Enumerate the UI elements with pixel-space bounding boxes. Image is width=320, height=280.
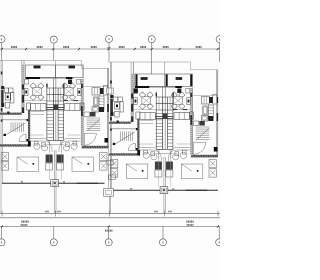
gate post box <box>51 180 59 187</box>
Q2 garden bed <box>72 157 94 171</box>
Q2 shrub circle 1 <box>71 143 77 149</box>
kitchen top line <box>192 95 217 97</box>
party wall upper stub <box>164 62 166 74</box>
building top edge line right <box>81 67 108 69</box>
Q1 room label <box>34 66 41 69</box>
Q2 path square 2 <box>175 152 179 156</box>
Q1 path to gate <box>158 159 160 187</box>
Q2 path square 2 <box>66 143 70 147</box>
left edge wall outer <box>0 61 2 214</box>
grid stem 3 (bottom) <box>108 227 110 239</box>
Q2 divider dark dash 1 <box>64 100 69 101</box>
crossing box between buildings <box>107 88 113 94</box>
Q1 path square 1 <box>144 150 148 154</box>
grid bubble 3 (bottom) <box>105 239 112 246</box>
grid bubble 1 (top) <box>0 36 5 43</box>
Q2 shrub circle 2 <box>173 154 179 160</box>
Q2 sofa group <box>174 113 189 120</box>
building top edge line right <box>191 69 218 71</box>
grid stem 2 (top) <box>53 43 55 60</box>
Q2 room divider line <box>64 100 81 102</box>
Q2 dining table and chairs <box>62 83 68 89</box>
black blob below room-left <box>134 89 138 94</box>
Q1 terrace furniture <box>111 95 114 98</box>
stair mid-landing dark band <box>156 116 174 118</box>
Q2 room divider line <box>173 109 190 111</box>
terrace bottom wall hatched <box>0 113 22 115</box>
Q1 path square 1 <box>34 141 38 145</box>
Q2 top bedroom <box>165 74 193 87</box>
grid stem 2 (bottom) <box>53 227 55 239</box>
Q1 shrub circle 2 <box>151 154 157 160</box>
Q1 stair dark dot <box>113 143 116 145</box>
black dot left of stair core <box>46 84 47 88</box>
party fence lower a <box>163 194 165 214</box>
Q2 dark block <box>105 138 109 143</box>
Q2 path to gate <box>61 152 63 180</box>
Q2 path top line <box>177 143 190 145</box>
street label L1 <box>44 211 47 213</box>
grid bubble 4 (top) <box>148 36 155 43</box>
left wall dark tick 2 <box>110 117 112 121</box>
Q2 bottom wall hatched <box>191 155 218 158</box>
kitchen left wall hatch <box>191 88 193 154</box>
Q2 kitchen sink dark <box>100 88 104 94</box>
bottom dim text row2 L <box>21 224 22 226</box>
Q1 room left black bar <box>136 74 138 86</box>
Q2 entry steps <box>57 155 64 163</box>
Q2 room left black bar <box>166 74 168 86</box>
Q2 shrub circle 1 <box>180 152 186 158</box>
right wall dark seg2 <box>217 113 219 121</box>
Q1 garden path curve <box>31 139 50 153</box>
Q1 entry steps <box>155 162 162 170</box>
left edge wall inner <box>1 61 3 184</box>
Q1 room bottom wall black <box>135 86 150 88</box>
Q1 room divider line <box>24 100 47 102</box>
Q2 dark landing box <box>90 112 96 117</box>
Q1 bottom wall post <box>28 141 31 147</box>
street tick <box>54 211 56 217</box>
Q2 stair diagonal <box>196 128 209 140</box>
Q2 kitchen sink dark <box>209 97 213 103</box>
Q2 stair diagonal <box>87 119 100 131</box>
Q1 stair diagonal <box>116 132 135 144</box>
grid bubble 3 (top) <box>106 36 113 43</box>
Q2 kitchen sink oval <box>201 116 208 122</box>
right edge wall a <box>216 70 218 157</box>
Q2 entry stair room <box>84 112 90 117</box>
left edge wall outer <box>109 62 111 213</box>
kitchen wall dark seg <box>190 93 192 97</box>
grid stem 1 (bottom) <box>1 227 3 239</box>
Q1 terrace furniture <box>1 86 4 89</box>
terrace wall hatch <box>22 65 24 113</box>
grid bubble 1 (bottom) <box>0 239 5 246</box>
top dimension texts <box>11 46 12 48</box>
Q1 room label <box>141 77 148 80</box>
kitchen left wall a <box>190 88 192 155</box>
street line 2 <box>0 217 220 219</box>
Q2 divider dark dash 2 <box>183 109 188 110</box>
terrace bottom wall hatched <box>109 122 131 124</box>
Q2 black fixture <box>177 89 181 94</box>
terrace wall hatch <box>131 74 133 122</box>
grid bubble 5 (top) <box>216 36 223 43</box>
Q1 hatched wall vertical <box>137 119 139 150</box>
grid stem 5 (bottom) <box>218 227 220 239</box>
stair core dark cell <box>54 104 58 110</box>
Q2 garden bed <box>181 164 203 178</box>
label under bubble 3 <box>106 47 109 48</box>
terrace wall dark segment 2 <box>22 95 24 103</box>
Q1 room divider line <box>133 109 156 111</box>
Q2 shrub circle 2 <box>63 145 69 151</box>
party fence upper a <box>54 150 56 180</box>
Q1 shrub circle 1 <box>143 152 149 158</box>
kitchen wall dark seg 2 <box>190 115 192 125</box>
left wall dark tick 1 <box>110 81 112 84</box>
yard garden elements <box>1 153 8 161</box>
Q1 small box <box>134 89 138 94</box>
grid stem 3 (top) <box>108 43 110 63</box>
Q1 garden path curve <box>140 148 159 162</box>
terrace wall dark segment 3 <box>131 117 133 123</box>
grid stem 4 (bottom) <box>162 227 164 239</box>
Q1 top bedroom <box>135 74 165 87</box>
right edge wall a <box>107 68 109 148</box>
Q1 path top line <box>31 134 44 136</box>
bottom dimension texts row1 <box>21 221 22 223</box>
building top edge line left <box>0 60 81 62</box>
Q1 sideboard <box>134 98 138 105</box>
Q2 room right black bar <box>190 74 192 86</box>
party fence upper a <box>163 157 165 187</box>
Q2 room label <box>69 66 76 69</box>
Q1 path top line <box>140 143 153 145</box>
grid bubble 5 (bottom) <box>216 239 223 246</box>
terrace wall dark segment 1 <box>22 85 24 90</box>
crossing box 2 between yards <box>107 160 113 165</box>
Q1 entry stair room <box>2 119 26 121</box>
Q2 fridge <box>203 106 208 115</box>
stair bottom row <box>156 148 173 150</box>
Q1 stair diagonal <box>6 123 25 135</box>
Q2 small box <box>186 89 190 94</box>
terrace wall dark segment 2 <box>131 104 133 112</box>
stair rungs <box>156 113 173 146</box>
Q1 stair dark dot <box>4 134 7 136</box>
Q1 room bottom wall thin <box>149 86 165 88</box>
gate post box <box>160 187 168 194</box>
street line 1 <box>0 212 220 214</box>
Q1 shrub circle 1 <box>34 143 40 149</box>
top dimension ticks <box>1 48 219 50</box>
left edge wall inner <box>111 62 113 192</box>
small mid box <box>109 175 116 180</box>
stair core dark cell <box>163 113 167 119</box>
left wall dark tick 3 <box>1 120 3 122</box>
Q2 dark landing box <box>199 121 205 126</box>
right edge wall b <box>108 68 110 148</box>
left wall dark tick 1 <box>1 72 3 75</box>
Q2 room label <box>176 77 183 80</box>
top edge jog vertical <box>190 62 192 70</box>
yard garden elements <box>111 160 118 168</box>
fence dark dashes <box>77 183 98 184</box>
party fence lower a <box>54 187 56 214</box>
grid stem 5 (top) <box>219 43 221 62</box>
Q2 kitchen counter 2 <box>104 86 108 96</box>
Q2 kitchen counter <box>92 88 100 96</box>
Q1 room bottom wall black <box>26 77 41 79</box>
Q1 top bedroom <box>26 65 56 78</box>
gate label <box>62 181 65 182</box>
grid bubble 2 (bottom) <box>50 239 57 246</box>
kitchen left wall hatch <box>81 79 83 145</box>
Q2 room bottom wall black <box>66 77 73 79</box>
Q1 shrub circle 2 <box>42 145 48 151</box>
Q2 kitchen counter 2 <box>213 95 217 105</box>
Q2 kitchen counter <box>201 97 209 105</box>
Q1 sideboard <box>25 89 29 96</box>
gate label <box>171 188 174 189</box>
Q1 dining table and chairs <box>139 92 145 98</box>
street label R1 <box>153 211 156 213</box>
street tick <box>217 211 219 217</box>
Q1 entry stair room <box>112 128 136 130</box>
Q1 path square 2 <box>42 143 46 147</box>
terrace wall line a <box>21 61 23 114</box>
building top edge line left <box>109 61 190 63</box>
street label R2 <box>167 211 170 213</box>
Q1 path square 2 <box>151 152 155 156</box>
street label L2 <box>56 211 59 213</box>
Q2 top bedroom <box>56 65 84 78</box>
Q1 dining table and chairs <box>30 83 36 89</box>
overall dimension text <box>105 230 106 232</box>
Q2 room right wall <box>192 74 194 87</box>
Q2 path square 1 <box>73 141 77 145</box>
Q2 dining table and chairs <box>171 92 177 98</box>
terrace wall dark segment 3 <box>22 108 24 114</box>
top edge jog vertical <box>80 61 82 69</box>
Q1 sofa group <box>27 103 31 110</box>
kitchen wall dark seg <box>81 84 83 88</box>
fence dark dashes <box>186 190 207 191</box>
Q1 room bottom wall thin <box>40 77 56 79</box>
Q1 garden bed <box>17 157 39 171</box>
street tick <box>164 211 166 217</box>
Q2 room bottom wall black <box>175 86 182 88</box>
terrace wall line b <box>23 61 25 114</box>
kitchen left wall b <box>192 88 194 155</box>
Q1 bottom wall hatched <box>0 144 31 146</box>
Q2 dark block <box>214 147 218 152</box>
stair rungs <box>47 104 64 137</box>
black dot left of stair core <box>156 93 157 97</box>
Q1 entry steps <box>46 155 53 163</box>
Q2 fridge <box>94 97 99 106</box>
stair landing rows <box>156 96 173 98</box>
Q2 stove dark <box>99 107 104 112</box>
Q2 stove dark <box>208 116 213 121</box>
Q2 garden path curve <box>62 139 81 153</box>
Q1 small box <box>25 80 29 85</box>
Q2 entry steps <box>166 162 173 170</box>
fence label <box>129 188 132 189</box>
Q1 garden bed <box>126 164 148 178</box>
black dot right of stair core <box>63 84 64 88</box>
grid stem 1 (top) <box>1 43 3 61</box>
grid bubble 2 (top) <box>50 36 57 43</box>
right edge wall b <box>217 70 219 157</box>
stair flights rails <box>46 88 49 140</box>
Q2 garden path curve <box>171 148 190 162</box>
left wall dark tick 3 <box>110 129 112 131</box>
Q2 sideboard <box>187 98 191 105</box>
Q2 path to gate <box>170 159 172 187</box>
street tick <box>109 211 111 217</box>
black dot right of stair core <box>173 93 174 97</box>
Q2 sideboard <box>78 89 82 96</box>
front fence <box>2 182 105 184</box>
terrace wall dark segment 1 <box>131 94 133 99</box>
kitchen left wall a <box>80 79 82 146</box>
Q2 kitchen shelf <box>208 105 213 120</box>
stair bottom row <box>47 139 64 141</box>
Q2 kitchen shelf <box>99 96 104 111</box>
right wall dark seg <box>107 88 109 94</box>
right wall dark seg <box>217 97 219 103</box>
Q2 entry stair room <box>193 121 199 126</box>
Q2 path top line <box>68 134 81 136</box>
Q2 bottom wall hatched <box>82 146 109 149</box>
Q1 path to gate <box>49 152 51 180</box>
kitchen wall dark seg 2 <box>81 106 83 116</box>
party wall upper stub <box>55 61 57 66</box>
right wall dark seg2 <box>107 104 109 112</box>
bottom dimension line <box>0 226 220 228</box>
terrace wall line a <box>130 62 132 122</box>
Q2 divider dark dash 2 <box>74 100 79 101</box>
stair landing rows <box>47 87 64 89</box>
front fence <box>111 189 218 191</box>
stair flights rails <box>155 97 158 149</box>
stair core: party wall lines <box>52 78 54 88</box>
Q1 sofa group <box>136 112 140 119</box>
kitchen left wall b <box>82 79 84 146</box>
stair core: party wall lines <box>162 87 164 97</box>
Q2 divider dark dash 1 <box>173 109 178 110</box>
Q2 kitchen sink oval <box>92 107 99 113</box>
Q2 room right wall <box>82 65 84 78</box>
Q1 hatched wall vertical <box>28 110 30 141</box>
Q1 bottom wall post <box>137 150 140 156</box>
stair mid-landing dark band <box>46 107 64 109</box>
street tick <box>1 211 3 217</box>
left wall dark tick 2 <box>1 108 3 112</box>
top dimension line <box>0 48 220 50</box>
grid bubble 4 (bottom) <box>160 239 167 246</box>
terrace wall line b <box>132 62 134 122</box>
mid line to street <box>109 196 111 213</box>
kitchen top line <box>83 86 108 88</box>
Q2 small box <box>77 80 81 85</box>
Q2 black fixture <box>68 80 72 85</box>
Q1 bottom wall hatched <box>109 153 140 155</box>
Q2 sofa group <box>65 104 80 111</box>
fence label <box>20 181 23 182</box>
grid stem 4 (top) <box>151 43 153 74</box>
mid pillar box <box>104 189 114 197</box>
bottom dim text row2 R <box>187 224 188 226</box>
Q2 path square 1 <box>182 150 186 154</box>
